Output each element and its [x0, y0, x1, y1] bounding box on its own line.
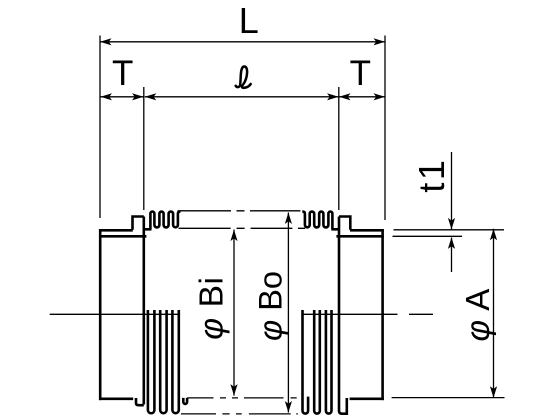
- arrow T-left right: [132, 93, 144, 100]
- svg-text:T: T: [112, 54, 133, 93]
- dimension line t1 upper: [451, 152, 453, 229]
- dimension line ell: [145, 96, 339, 98]
- phantom line root bottom (phiBi level): [187, 397, 297, 399]
- svg-text:φ A: φ A: [459, 289, 496, 342]
- dimension line L: [100, 41, 385, 43]
- dimension line phiBo: [287, 213, 289, 413]
- arrow phiA bottom: [490, 386, 497, 398]
- arrow T-left left: [101, 93, 113, 100]
- left pipe top edge: [99, 229, 133, 232]
- centerline left: [50, 313, 180, 315]
- extension line right of L: [384, 36, 386, 221]
- extension line right of ell: [338, 87, 340, 210]
- left fitting right edge: [143, 217, 146, 405]
- right bellows hairpin 2: [314, 310, 320, 414]
- dimension line T left: [101, 96, 144, 98]
- left bellows hairpin 3: [172, 310, 178, 413]
- arrow t1 up: [448, 237, 455, 249]
- left bellows hairpin 2: [160, 310, 166, 413]
- arrow T-right right: [374, 93, 386, 100]
- arrowheads: [100, 38, 497, 412]
- left pipe end face: [99, 229, 102, 400]
- phantom line root top (phiBi level): [179, 227, 306, 229]
- dimension line phiA: [493, 229, 495, 398]
- phantom line crest bottom (phiBo level): [181, 413, 298, 415]
- right bellows convolutions (section, top): [302, 212, 332, 229]
- svg-text:T: T: [350, 54, 371, 93]
- arrow phiBi top: [230, 230, 237, 242]
- arrow t1 down: [448, 218, 455, 230]
- svg-text:φ Bo: φ Bo: [253, 271, 289, 341]
- left collar (top tab): [133, 217, 144, 230]
- arrow ell left: [145, 93, 157, 100]
- arrow phiBo top: [285, 213, 292, 225]
- extension line left of L: [99, 36, 101, 219]
- left root connector: [144, 228, 152, 231]
- svg-text:L: L: [239, 0, 259, 41]
- right pipe end face: [381, 229, 384, 400]
- svg-text:φ Bi: φ Bi: [194, 276, 231, 339]
- arrow phiBi bottom: [230, 384, 237, 396]
- right collar (top tab): [339, 217, 350, 230]
- arrow ell right: [327, 93, 339, 100]
- left pipe bore line: [99, 235, 146, 238]
- svg-text:t1: t1: [411, 158, 452, 193]
- left pipe bottom edge: [99, 397, 133, 400]
- extension line t1 lower: [393, 235, 463, 237]
- centerline right dash: [409, 313, 433, 315]
- extension line left of ell: [143, 87, 145, 210]
- label ell (script l): [236, 66, 251, 87]
- dimension line T right: [339, 96, 385, 98]
- left bellows convolutions (section, top): [150, 212, 180, 229]
- arrow L right: [374, 38, 386, 45]
- left bellows end hook: [183, 398, 187, 404]
- right root connector: [331, 228, 339, 231]
- right bellows hairpin 3 (d-shape: right leg short): [303, 310, 309, 414]
- arrow T-right left: [339, 93, 351, 100]
- extension line t1/phiA upper: [394, 229, 505, 231]
- phantom line crest top (phiBo level): [178, 210, 301, 212]
- right pipe bottom edge: [350, 397, 384, 400]
- arrow L left: [100, 38, 112, 45]
- part outline: thick lines: [99, 212, 384, 414]
- right pipe bore line: [336, 235, 383, 238]
- phantom dash-dot lines: [50, 211, 433, 414]
- right bottom tab: [339, 398, 347, 414]
- right bellows hairpin 1: [326, 310, 332, 414]
- left bellows hairpin 1: [148, 310, 155, 413]
- extension line phiA bottom: [392, 397, 505, 399]
- right fitting left edge: [338, 217, 341, 412]
- dimension line t1 lower: [451, 238, 453, 273]
- arrow phiBo bottom: [285, 401, 292, 413]
- right pipe top edge: [350, 229, 384, 232]
- left bottom tab: [136, 398, 144, 405]
- arrow phiA top: [490, 229, 497, 241]
- centerline right solid: [303, 313, 398, 315]
- dimension line phiBi: [233, 230, 235, 396]
